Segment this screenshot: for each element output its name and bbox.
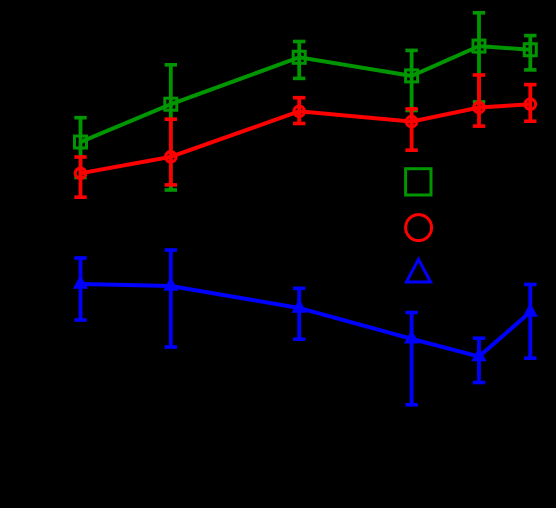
- red series line: [81, 104, 531, 173]
- blue series error bar 1: [74, 258, 86, 320]
- blue triangle marker 2: [163, 277, 178, 291]
- green square marker 6: [524, 44, 536, 56]
- green series error bar 2: [165, 65, 177, 190]
- green series error bar 5: [473, 13, 485, 102]
- legend red circle: [406, 215, 432, 241]
- green square marker 5: [473, 40, 485, 52]
- red series error bar 3: [293, 98, 305, 124]
- red series error bar 2: [165, 119, 177, 185]
- green series error bar 4: [405, 50, 417, 110]
- green series error bar 3: [293, 42, 305, 79]
- blue triangle marker 4: [404, 330, 419, 344]
- red circle marker 1: [75, 168, 86, 179]
- red circle marker 6: [525, 99, 536, 110]
- blue triangle marker 6: [523, 303, 538, 317]
- red series error bar 1: [74, 157, 86, 197]
- red series error bar 5: [473, 75, 485, 126]
- blue triangle marker 1: [73, 275, 88, 289]
- blue series error bar 4: [405, 313, 417, 405]
- blue series error bar 6: [524, 284, 536, 358]
- red series error bar 4: [405, 109, 417, 150]
- legend green square: [406, 169, 431, 195]
- red circle marker 5: [474, 102, 485, 113]
- blue series line: [81, 284, 531, 357]
- red circle marker 3: [294, 106, 305, 117]
- blue triangle marker 5: [471, 347, 486, 361]
- legend blue triangle: [406, 259, 430, 282]
- green square marker 3: [293, 51, 305, 63]
- blue series error bar 2: [165, 250, 177, 347]
- blue triangle marker 3: [292, 299, 307, 313]
- green square marker 2: [165, 98, 177, 110]
- green square marker 1: [75, 136, 87, 148]
- blue series error bar 5: [473, 338, 485, 382]
- red circle marker 4: [406, 116, 417, 127]
- green series line: [81, 46, 531, 142]
- blue series error bar 3: [293, 288, 305, 339]
- red series error bar 6: [524, 85, 536, 122]
- green series error bar 6: [524, 36, 536, 70]
- green series error bar 1: [74, 118, 86, 178]
- red circle marker 2: [166, 152, 177, 163]
- green square marker 4: [406, 70, 418, 82]
